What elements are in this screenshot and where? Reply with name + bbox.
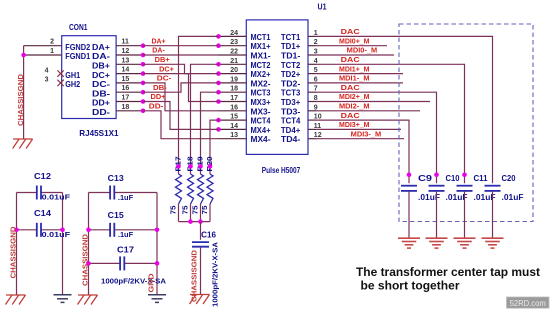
wire MDI3+_M pin 11	[317, 128, 401, 130]
svg-text:.1uF: .1uF	[118, 230, 134, 239]
svg-text:3: 3	[45, 77, 49, 84]
junction C11	[462, 173, 467, 178]
svg-text:DB-: DB-	[153, 85, 168, 92]
junction at CON1 pin 13	[141, 62, 146, 67]
junction U1 pin 14	[216, 127, 221, 132]
resistor R20 75 ohm	[209, 166, 211, 174]
junction U1 pin 23	[216, 43, 221, 48]
U1 pin 1 TCT1	[308, 35, 317, 37]
wire MCT4 to R20	[210, 120, 219, 166]
wire DD+	[143, 102, 219, 130]
svg-text:21: 21	[230, 58, 238, 65]
CON1 pin 17 DD+	[116, 101, 143, 103]
svg-text:1: 1	[50, 48, 54, 55]
svg-text:15: 15	[122, 76, 130, 83]
junction U1 pin 17	[216, 99, 221, 104]
svg-text:FGND1: FGND1	[65, 52, 90, 61]
svg-text:DC-: DC-	[92, 80, 110, 89]
chassis ground (C13)	[78, 295, 98, 305]
wire DAC pin 7	[317, 92, 437, 183]
earth ground (C20)	[482, 238, 504, 248]
svg-text:C11: C11	[474, 174, 489, 183]
svg-text:The transformer center tap mus: The transformer center tap must	[356, 265, 540, 279]
svg-text:R19: R19	[196, 156, 205, 171]
wire MDI1+_M pin 5	[317, 73, 403, 75]
U1 pin 20 MX2+	[219, 73, 247, 75]
CON1 pin 11 DA+	[116, 45, 143, 47]
svg-text:75: 75	[200, 206, 209, 215]
svg-text:2: 2	[50, 39, 54, 46]
wire DA-	[143, 54, 219, 56]
svg-text:RJ45S1X1: RJ45S1X1	[79, 128, 119, 138]
svg-text:MDI3-_M: MDI3-_M	[351, 131, 382, 138]
svg-text:DAC: DAC	[341, 29, 360, 36]
wire MCT2 to R18	[191, 64, 219, 166]
wire MDI3-_M pin 12	[317, 138, 404, 140]
svg-text:DB+: DB+	[92, 62, 110, 71]
CON1 pin 12 DA-	[116, 54, 143, 56]
svg-text:18: 18	[230, 86, 238, 93]
svg-text:75: 75	[181, 206, 190, 215]
wire C9 to ground	[408, 191, 410, 238]
svg-text:be short together: be short together	[361, 279, 460, 293]
wire termination bus	[179, 221, 211, 223]
capacitor C14 0.01uF	[17, 229, 37, 231]
svg-text:MX3+: MX3+	[251, 98, 271, 107]
svg-text:TD3-: TD3-	[281, 107, 301, 116]
junction U1 pin 18	[216, 90, 221, 95]
junction at CON1 pin 16	[141, 90, 146, 95]
svg-text:MX1+: MX1+	[251, 42, 271, 51]
svg-text:CHASSISGND: CHASSISGND	[8, 226, 17, 279]
U1 pin 6 TD2-	[308, 82, 317, 84]
U1 pin 14 MX4+	[219, 128, 247, 130]
CON1 pin 14 DC+	[116, 73, 143, 75]
svg-text:TD1-: TD1-	[281, 52, 301, 61]
svg-text:TD4-: TD4-	[281, 135, 301, 144]
transformer U1 body	[246, 20, 308, 155]
junction C9	[407, 173, 412, 178]
wire DB-	[143, 83, 219, 92]
ground GND (C12 right)	[54, 295, 72, 303]
svg-text:DD-: DD-	[149, 104, 164, 111]
wire DAC pin 10	[317, 120, 409, 183]
svg-text:0.01uF: 0.01uF	[42, 193, 71, 202]
svg-text:MCT1: MCT1	[251, 33, 272, 42]
junction at CON1 pin 18	[141, 109, 146, 114]
wire DC-	[143, 83, 219, 111]
svg-text:23: 23	[230, 39, 238, 46]
watermark 52RD.com	[507, 297, 550, 308]
U1 pin 10 TCT4	[308, 119, 317, 121]
svg-text:TCT4: TCT4	[281, 117, 301, 126]
capacitor C12 0.01uF	[17, 192, 37, 194]
capacitor C16 1000pF/2KV-X-SA	[192, 242, 209, 247]
svg-text:52RD.com: 52RD.com	[510, 299, 546, 308]
wire MCT1 to R17	[179, 36, 219, 166]
junction R18/bus	[188, 219, 193, 224]
svg-text:C20: C20	[502, 174, 517, 183]
U1 pin 13 MX4-	[219, 138, 247, 140]
chassis ground (C16)	[190, 295, 210, 305]
svg-text:17: 17	[230, 95, 238, 102]
svg-text:Pulse H5007: Pulse H5007	[262, 166, 301, 175]
svg-text:DC+: DC+	[92, 71, 110, 80]
junction U1 pin 19	[216, 81, 221, 86]
svg-text:C14: C14	[34, 209, 52, 218]
svg-text:24: 24	[230, 30, 238, 37]
svg-text:DA-: DA-	[92, 52, 110, 61]
svg-text:R18: R18	[186, 156, 195, 171]
svg-text:FGND2: FGND2	[65, 43, 90, 52]
junction C17 right	[155, 261, 160, 266]
wire DAC pin 4	[317, 64, 465, 183]
wire MDI1-_M pin 6	[317, 82, 403, 84]
junction C15 right	[155, 228, 160, 233]
svg-text:MDI0-_M: MDI0-_M	[347, 48, 378, 55]
svg-text:C9: C9	[418, 174, 433, 183]
svg-text:MDI1-_M: MDI1-_M	[339, 76, 370, 83]
ground GND (C17 right)	[148, 295, 166, 303]
svg-text:TD1+: TD1+	[281, 42, 301, 51]
svg-text:DC+: DC+	[159, 66, 174, 73]
svg-text:DD+: DD+	[92, 99, 110, 108]
earth ground (C10)	[426, 238, 448, 248]
junction C10	[434, 173, 439, 178]
svg-text:TD2-: TD2-	[281, 79, 301, 88]
svg-text:1000pF/2KV-X-SA: 1000pF/2KV-X-SA	[211, 241, 220, 307]
svg-text:MX1-: MX1-	[251, 52, 271, 61]
svg-text:CON1: CON1	[69, 23, 88, 32]
svg-text:DB+: DB+	[155, 57, 170, 64]
wire DD-	[143, 111, 219, 139]
svg-text:DC-: DC-	[157, 76, 172, 83]
svg-text:TCT2: TCT2	[281, 61, 301, 70]
svg-text:C16: C16	[201, 230, 216, 239]
U1 pin 16 MX3-	[219, 110, 247, 112]
svg-text:MDI2-_M: MDI2-_M	[339, 104, 370, 111]
svg-text:75: 75	[169, 206, 178, 215]
U1 pin 24 MCT1	[219, 35, 247, 37]
svg-text:DA-: DA-	[152, 48, 165, 55]
svg-text:GND: GND	[147, 273, 156, 293]
junction C14 right	[60, 228, 65, 233]
svg-text:C13: C13	[108, 174, 125, 183]
capacitor C17 1000pF/2KV-X-SA	[89, 262, 121, 264]
junction C15 left	[86, 228, 91, 233]
svg-text:18: 18	[122, 104, 130, 111]
wire chassis rail (C13 left)	[88, 193, 90, 296]
U1 pin 23 MX1+	[219, 45, 247, 47]
svg-text:13: 13	[230, 132, 238, 139]
U1 pin 7 TCT3	[308, 91, 317, 93]
svg-text:TD4+: TD4+	[281, 126, 301, 135]
wire rail (C12 right)	[62, 193, 64, 295]
svg-text:75: 75	[191, 206, 200, 215]
svg-text:MDI3+_M: MDI3+_M	[339, 122, 370, 129]
resistor R18 75 ohm	[190, 166, 192, 174]
CON1 pin 2 FGND2	[24, 45, 62, 47]
svg-text:MCT2: MCT2	[251, 61, 272, 70]
svg-text:11: 11	[122, 39, 130, 46]
junction at CON1 pin 15	[141, 81, 146, 86]
U1 pin 5 TD2+	[308, 73, 317, 75]
svg-text:16: 16	[122, 85, 130, 92]
chassis ground (CON1)	[13, 139, 33, 149]
U1 pin 18 MCT3	[219, 91, 247, 93]
svg-text:DAC: DAC	[341, 113, 360, 120]
svg-text:MX4-: MX4-	[251, 135, 271, 144]
wire DB+	[143, 64, 219, 73]
svg-text:MCT3: MCT3	[251, 89, 272, 98]
wire C20 to ground	[492, 191, 494, 238]
svg-text:TCT3: TCT3	[281, 89, 301, 98]
svg-text:C17: C17	[117, 245, 135, 254]
wire MDI2-_M pin 9	[317, 110, 420, 112]
svg-text:GH2: GH2	[65, 80, 80, 89]
svg-text:GH1: GH1	[65, 71, 80, 80]
dashed box	[399, 24, 533, 222]
svg-text:MDI0+_M: MDI0+_M	[339, 38, 370, 45]
capacitor C15 .1uF	[89, 229, 111, 231]
U1 pin 8 TD3+	[308, 101, 317, 103]
wire C11 to ground	[464, 191, 466, 238]
svg-text:C10: C10	[446, 174, 461, 183]
svg-text:DAC: DAC	[341, 85, 360, 92]
svg-text:14: 14	[122, 67, 130, 74]
U1 pin 4 TCT2	[308, 63, 317, 65]
wire DA+	[143, 45, 219, 47]
svg-text:13: 13	[122, 57, 130, 64]
junction R19/bus	[198, 219, 203, 224]
wire chassis rail (C12 left)	[16, 193, 18, 296]
svg-text:DD+: DD+	[151, 94, 166, 101]
earth ground (C11)	[454, 238, 476, 248]
svg-text:0.01uF: 0.01uF	[42, 230, 71, 239]
earth ground (C9)	[398, 238, 420, 248]
junction C14 left	[14, 228, 19, 233]
svg-text:MX4+: MX4+	[251, 126, 271, 135]
junction at CON1 pin 11	[141, 43, 146, 48]
svg-text:R17: R17	[174, 156, 183, 171]
svg-text:C15: C15	[108, 211, 125, 220]
junction pin1/rail	[21, 53, 26, 58]
chassis ground (C12)	[6, 295, 26, 305]
wire MDI2+_M pin 8	[317, 101, 430, 103]
junction U1 pin 21	[216, 62, 221, 67]
wire bus to C16	[200, 222, 202, 240]
junction U1 pin 24	[216, 34, 221, 39]
junction at CON1 pin 14	[141, 71, 146, 76]
svg-text:20: 20	[230, 67, 238, 74]
U1 pin 21 MCT2	[219, 63, 247, 65]
wire MCT3 to R19	[201, 92, 219, 166]
svg-text:TCT1: TCT1	[281, 33, 301, 42]
CON1 pin 15 DC-	[116, 82, 143, 84]
wire C16 to chassis	[200, 247, 202, 294]
wire MDI0-_M pin 3	[317, 54, 394, 56]
U1 pin 17 MX3+	[219, 101, 247, 103]
resistor R19 75 ohm	[200, 166, 202, 174]
svg-text:CHASSISGND: CHASSISGND	[80, 233, 89, 286]
svg-text:.01uF: .01uF	[502, 193, 524, 202]
wire C10 to ground	[436, 191, 438, 238]
capacitor C20 .01uF	[485, 186, 501, 191]
CON1 pin 18 DD-	[116, 110, 143, 112]
svg-text:CHASSISGND: CHASSISGND	[16, 73, 25, 126]
svg-text:TD3+: TD3+	[281, 98, 301, 107]
svg-text:15: 15	[230, 114, 238, 121]
svg-text:17: 17	[122, 95, 130, 102]
svg-text:14: 14	[230, 123, 238, 130]
svg-text:TD2+: TD2+	[281, 70, 301, 79]
U1 pin 9 TD3-	[308, 110, 317, 112]
U1 pin 2 TD1+	[308, 45, 317, 47]
junction at CON1 pin 12	[141, 53, 146, 58]
junction at CON1 pin 17	[141, 99, 146, 104]
svg-text:DA+: DA+	[92, 43, 110, 52]
U1 pin 22 MX1-	[219, 54, 247, 56]
junction C17 left	[86, 261, 91, 266]
svg-text:DD-: DD-	[92, 108, 110, 117]
svg-text:R20: R20	[205, 156, 214, 171]
svg-text:MX3-: MX3-	[251, 107, 271, 116]
wire DAC pin 1	[317, 36, 493, 183]
U1 pin 12 TD4-	[308, 138, 317, 140]
svg-text:1000pF/2KV-X-SA: 1000pF/2KV-X-SA	[101, 276, 167, 285]
svg-text:19: 19	[230, 76, 238, 83]
svg-text:4: 4	[45, 67, 49, 74]
CON1 pin 1 FGND1	[24, 54, 62, 56]
svg-text:DB-: DB-	[92, 89, 110, 98]
connector CON1 body	[62, 36, 116, 119]
junction U1 pin 15	[216, 118, 221, 123]
wire rail (C13 right)	[156, 193, 158, 295]
svg-text:DA+: DA+	[152, 38, 166, 45]
U1 pin 15 MCT4	[219, 119, 247, 121]
svg-text:U1: U1	[318, 2, 327, 11]
CON1 pin 13 DB+	[116, 63, 143, 65]
svg-text:MDI1+_M: MDI1+_M	[339, 66, 370, 73]
svg-text:DAC: DAC	[341, 57, 360, 64]
svg-text:MCT4: MCT4	[251, 117, 272, 126]
svg-text:MDI2+_M: MDI2+_M	[339, 94, 370, 101]
svg-text:C12: C12	[34, 172, 52, 181]
svg-text:12: 12	[122, 48, 130, 55]
resistor R17 75 ohm	[178, 166, 180, 174]
U1 pin 11 TD4+	[308, 128, 317, 130]
wire MDI0+_M pin 2	[317, 45, 387, 47]
svg-text:22: 22	[230, 49, 238, 56]
U1 pin 19 MX2-	[219, 82, 247, 84]
wire DC+	[143, 74, 219, 102]
svg-text:.1uF: .1uF	[118, 193, 134, 202]
wire CHASSISGND rail (CON1)	[23, 46, 25, 139]
svg-text:MX2+: MX2+	[251, 70, 271, 79]
U1 pin 3 TD1-	[308, 54, 317, 56]
svg-text:16: 16	[230, 104, 238, 111]
capacitor C13 .1uF	[89, 192, 111, 194]
junction U1 pin 20	[216, 71, 221, 76]
CON1 pin 16 DB-	[116, 91, 143, 93]
svg-text:MX2-: MX2-	[251, 79, 271, 88]
